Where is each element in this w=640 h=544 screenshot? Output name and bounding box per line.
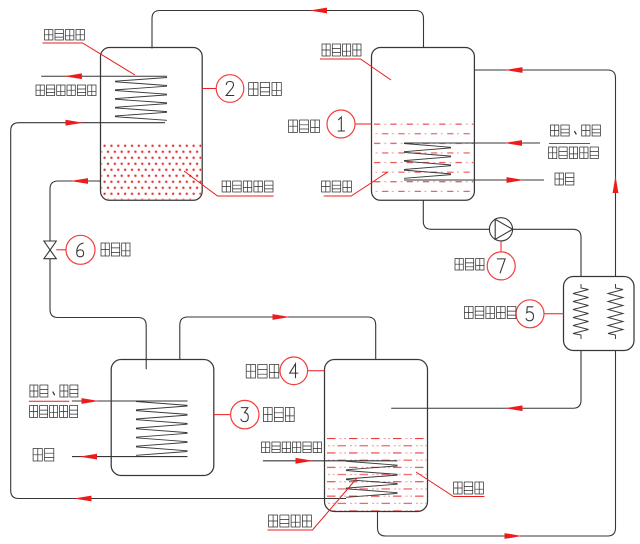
generator heating coil [404, 144, 451, 179]
absorber concentrated solution fill (dash-dot-dot) [326, 437, 427, 511]
callout circle 4 absorber [280, 357, 308, 385]
absorber vessel shell [325, 360, 428, 512]
wire stub drain line from condenser wall [99, 180, 101, 182]
arrow generator outlet pointing right [507, 177, 525, 183]
leader to circle 1 [355, 123, 371, 125]
label text 冷凝器 condenser [249, 83, 282, 96]
arrow on bottom working fluid line pointing left [74, 496, 92, 502]
label text 热水等入口 hot water inlet (evaporator) [30, 406, 78, 418]
label text 目的工质入口 working fluid inlet [262, 442, 322, 453]
label text 目的工质出口 working fluid outlet [36, 85, 96, 96]
callout circle 2 condenser [216, 75, 244, 103]
label text 一次加热 primary heating [269, 515, 312, 527]
label text 冷凝液态水 condensed liquid water [222, 181, 273, 192]
arrow on top vapor line pointing left [310, 8, 328, 14]
label text 溶液泵 solution pump [455, 259, 484, 271]
leader to circle 2 [202, 88, 216, 90]
label text 溶液换热器 solution heat exchanger [465, 307, 516, 319]
leader low pressure steam label [320, 59, 391, 80]
wire stub drain spray pipe inside evaporator [145, 360, 147, 370]
wire working fluid outlet from condenser coil [41, 75, 167, 77]
callout circle 1 generator [327, 110, 355, 138]
label text 吸收器 absorber [246, 365, 279, 379]
arrow on outlet line pointing left [64, 73, 82, 79]
underline exhaust steam inlet (generator) [549, 143, 590, 145]
generator dilute solution fill (dash-dot) [373, 121, 474, 199]
label text 乏汽、低温 exhaust steam (evaporator) [30, 385, 78, 397]
label text 乏汽、低温 exhaust steam (generator) [551, 125, 601, 136]
absorber heating coil [346, 461, 398, 497]
wire generator right to solution heat exchanger right coil [474, 70, 615, 284]
wire stub generator heat inlet inside [404, 142, 474, 144]
wire cold water outlet from generator coil [474, 179, 544, 181]
wire generator bottom to solution pump inlet [423, 200, 489, 229]
arrow on bottom run pointing right [505, 533, 523, 539]
label text 节流阀 throttle valve [101, 243, 130, 256]
leader primary heating label [268, 478, 358, 530]
wire stub working fluid outlet inside absorber [325, 498, 347, 500]
underline exhaust steam inlet (evaporator) [29, 400, 69, 402]
label text 低压蒸汽 low pressure steam [322, 44, 361, 56]
arrow working fluid inlet pointing right [296, 458, 314, 464]
arrow on generator return line pointing left [505, 67, 523, 73]
wire stub spray pipe inside absorber [391, 407, 427, 409]
wire top vapor line generator to condenser [152, 11, 424, 48]
throttle valve bowtie symbol [44, 241, 56, 259]
wire working fluid inlet into absorber coil [263, 460, 398, 462]
wire stub top line into condenser [151, 48, 153, 49]
label text 热水等入口 hot water inlet (generator) [549, 147, 599, 159]
callout circle 3 evaporator [231, 400, 259, 428]
leader secondary heating label [43, 43, 136, 75]
wire stub heat inlet inside evaporator [111, 400, 187, 402]
solution pump symbol (circle with triangle) [489, 218, 512, 241]
arrow on drain line pointing left [71, 178, 89, 184]
exchanger right coil [608, 284, 623, 339]
arrow pointing up on right riser [613, 176, 619, 194]
label text 冷水 cold water (generator) [555, 173, 574, 185]
leader to circle 4 [308, 370, 325, 372]
wire working fluid return: absorber coil to condenser via left riser [11, 123, 346, 499]
evaporator heating coil [136, 402, 188, 456]
condenser heating coil [115, 78, 167, 121]
label text 冷水 cold water (evaporator) [33, 449, 54, 462]
leader to circle 5 [544, 313, 564, 315]
condenser liquid fill (dotted) [102, 144, 202, 200]
wire condensate drain from condenser through throttle valve to evaporator [50, 181, 146, 369]
callout circle 5 heat exchanger [516, 300, 544, 328]
label text 浓溶液 concentrated solution [454, 482, 484, 494]
arrow into absorber pointing left [505, 405, 523, 411]
arrow on vapor line pointing right [273, 314, 291, 320]
label text 蒸发器 evaporator [263, 408, 294, 422]
leader concentrated solution label [416, 472, 484, 497]
leader condensed water label [184, 171, 274, 196]
label text 稀溶液 dilute solution [322, 181, 352, 192]
wire heat source inlet into generator coil [474, 142, 540, 144]
exchanger left coil [573, 284, 589, 339]
wire stub outlet line inside condenser [101, 75, 168, 77]
wire stub inlet line inside condenser [101, 122, 166, 124]
arrow generator inlet pointing left [505, 140, 523, 146]
label text 二次加热 secondary heating [45, 30, 85, 41]
callout circle 6 throttle valve [66, 235, 95, 264]
callout circle 7 solution pump [487, 252, 515, 280]
wire exchanger left coil bottom to absorber spray pipe [391, 339, 581, 408]
wire stub cold water inside evaporator [111, 456, 187, 458]
wire stub working fluid inlet inside absorber [325, 460, 398, 462]
generator vessel shell [372, 48, 475, 201]
condenser vessel shell [101, 48, 203, 201]
wire vapor from evaporator top to absorber top [180, 317, 376, 360]
label text 发生器 generator [289, 120, 320, 133]
evaporator vessel shell [111, 360, 214, 476]
wire heat source inlet into evaporator coil [72, 400, 136, 402]
wire exchanger right coil bottom down to bottom run [378, 339, 616, 536]
wire stub generator cold water inside [404, 179, 474, 181]
arrow cold water outlet pointing left [80, 454, 98, 460]
solution heat exchanger shell [564, 277, 635, 351]
leader dilute solution label [324, 172, 388, 196]
leader to circle 3 [214, 414, 231, 416]
arrow heat source inlet pointing right [82, 398, 100, 404]
leader from pump to circle 7 [500, 241, 502, 252]
wire solution pump outlet to exchanger left coil top [513, 229, 581, 284]
wire cold water outlet from evaporator coil [72, 456, 188, 458]
leader to circle 6 [56, 249, 66, 251]
arrow entering condenser pointing right [66, 120, 84, 126]
